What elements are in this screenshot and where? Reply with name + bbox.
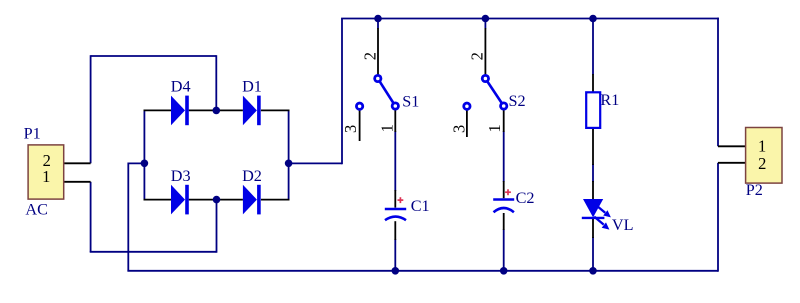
svg-text:P2: P2 <box>746 181 763 199</box>
svg-text:P1: P1 <box>24 125 41 143</box>
svg-text:D3: D3 <box>171 167 191 185</box>
svg-text:AC: AC <box>25 201 48 219</box>
svg-text:1: 1 <box>377 124 396 132</box>
svg-text:1: 1 <box>485 124 504 132</box>
svg-text:D2: D2 <box>242 167 262 185</box>
svg-text:D4: D4 <box>171 78 191 96</box>
svg-text:R1: R1 <box>600 91 619 109</box>
svg-text:2: 2 <box>360 52 379 60</box>
svg-text:1: 1 <box>42 167 50 186</box>
svg-text:S2: S2 <box>509 92 526 110</box>
svg-text:VL: VL <box>612 216 634 234</box>
svg-text:1: 1 <box>758 136 766 155</box>
svg-text:S1: S1 <box>402 92 419 110</box>
svg-text:C1: C1 <box>411 197 430 215</box>
svg-text:C2: C2 <box>516 189 535 207</box>
svg-text:3: 3 <box>450 125 469 133</box>
svg-text:2: 2 <box>467 52 486 60</box>
svg-text:2: 2 <box>758 154 766 173</box>
svg-text:D1: D1 <box>242 78 262 96</box>
svg-text:3: 3 <box>341 125 360 133</box>
